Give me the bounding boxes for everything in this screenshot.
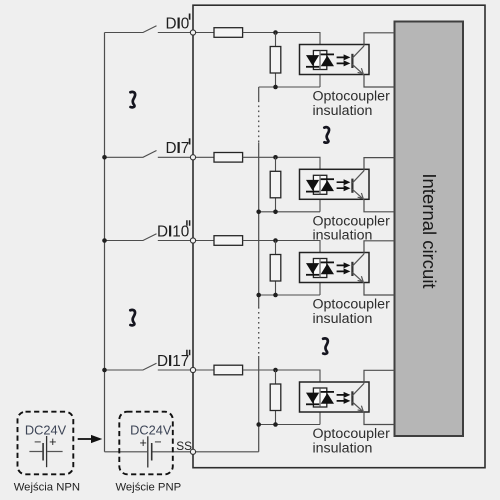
label DI17 (157, 350, 190, 370)
wire terminal DI7 to resistor R2a (193, 156, 214, 158)
node terminal DI0 (190, 30, 195, 35)
battery symbol PNP (147, 436, 149, 467)
label DI7 (165, 138, 189, 157)
wire row 2 return to common bus (259, 194, 320, 212)
battery box DC24V (PNP) (119, 412, 173, 475)
svg-text:DI7: DI7 (165, 140, 189, 157)
junction node row 3 bottom (273, 293, 278, 298)
junction on common bus row 3 (256, 293, 261, 298)
switch S4 (DI17 input) (105, 363, 191, 370)
LED center wire U4 (319, 388, 321, 407)
continuation squiggle right 1 (324, 127, 329, 142)
svg-text:DI17: DI17 (157, 353, 189, 370)
wire emitter Q4 to internal circuit (364, 412, 395, 424)
transistor Q1 (photo) (352, 46, 364, 75)
resistor R3b (shunt) (270, 241, 281, 296)
junction on left bus at DI7 (102, 155, 107, 160)
svg-text:DI0: DI0 (165, 15, 189, 32)
label DI0 (165, 14, 189, 33)
LED package of U2 (313, 175, 326, 194)
continuation squiggle left 2 (130, 310, 135, 325)
wire: optocoupler common bus (solid parts) (258, 87, 260, 452)
label Optocoupler insulation 1 (313, 89, 391, 119)
wire emitter Q2 to internal circuit (364, 200, 395, 212)
svg-text:+: + (140, 436, 147, 450)
switch S3 (DI10 input) (105, 234, 191, 241)
wire terminal DI10 to resistor R3a (193, 240, 214, 242)
node terminal DI10 (190, 238, 195, 243)
battery box DC24V (NPN) (18, 412, 74, 475)
wire collector Q3 to internal circuit (364, 241, 395, 254)
wire: SS line right segment (152, 451, 258, 453)
svg-text:SS: SS (176, 439, 192, 453)
resistor R3a (series) (214, 236, 243, 246)
battery symbol NPN (29, 451, 62, 453)
LED center wire U1 (319, 51, 321, 70)
wire: left common bus (104, 33, 106, 452)
junction on left bus at DI17 (102, 368, 107, 373)
wire terminal DI17 to resistor R4a (193, 369, 214, 371)
svg-text:DC24V: DC24V (25, 423, 67, 438)
wire resistor R2a to optocoupler input (243, 157, 320, 176)
junction on common bus row 2 (256, 210, 261, 215)
continuation squiggle right 2 (323, 338, 328, 353)
op-amp U1 optocoupler box (300, 45, 370, 75)
op-amp U4 optocoupler box (300, 382, 370, 412)
junction node row 2 top (273, 155, 278, 160)
wire emitter Q3 to internal circuit (364, 283, 395, 295)
diode D3a (down) (306, 263, 319, 275)
transistor Q2 (photo) (352, 171, 364, 200)
LED package of U1 (313, 51, 326, 70)
diode D1b (up) (321, 54, 334, 66)
wire collector Q1 to internal circuit (364, 33, 395, 46)
wire: common bus dotted segment 2 (258, 307, 260, 356)
resistor R2a (series) (214, 153, 243, 163)
junction node row 1 bottom (273, 85, 278, 90)
junction node row 4 top (273, 368, 278, 373)
label Optocoupler insulation 2 (313, 213, 391, 243)
junction node row 1 top (273, 30, 278, 35)
op-amp U3 optocoupler box (300, 253, 370, 283)
svg-text:−: − (154, 435, 161, 449)
wire collector Q2 to internal circuit (364, 158, 395, 171)
wire collector Q4 to internal circuit (364, 370, 395, 383)
wire terminal DI0 to resistor R1a (193, 32, 214, 34)
diode D2a (down) (306, 180, 319, 192)
resistor R2b (shunt) (270, 157, 281, 212)
internal circuit block (395, 22, 464, 437)
coupling arrows U3 (337, 262, 351, 274)
node terminal DI7 (190, 155, 195, 160)
wire resistor R4a to optocoupler input (243, 370, 320, 389)
LED center wire U2 (319, 175, 321, 194)
LED package of U3 (313, 259, 326, 278)
label Optocoupler insulation 3 (313, 297, 391, 327)
coupling arrows U2 (337, 179, 351, 191)
wire resistor R3a to optocoupler input (243, 241, 320, 260)
diode D4a (down) (306, 393, 319, 405)
resistor R1a (series) (214, 28, 243, 38)
switch S2 (DI7 input) (105, 151, 191, 158)
junction node row 4 bottom (273, 422, 278, 427)
LED center wire U3 (319, 259, 321, 278)
wire: common bus dotted segment 1 (258, 101, 260, 143)
svg-text:Wejścia NPN: Wejścia NPN (14, 481, 80, 493)
junction node row 2 bottom (273, 210, 278, 215)
arrow NPN to PNP (78, 435, 103, 443)
op-amp U2 optocoupler box (300, 169, 370, 199)
wire emitter Q1 to internal circuit (364, 75, 395, 87)
transistor Q4 (photo) (352, 383, 364, 412)
device outline box (193, 5, 485, 468)
resistor R4a (series) (214, 365, 243, 375)
svg-text:Internal circuit: Internal circuit (419, 173, 440, 288)
wire: SS line left segment (105, 451, 148, 453)
diode D4b (up) (321, 392, 334, 404)
wire resistor R1a to optocoupler input (243, 33, 320, 52)
svg-text:insulation: insulation (313, 103, 373, 119)
svg-text:insulation: insulation (313, 440, 373, 456)
node terminal SS (190, 449, 195, 454)
diode D2b (up) (321, 179, 334, 191)
node terminal DI17 (190, 367, 195, 372)
LED package of U4 (313, 388, 326, 407)
junction on common bus row 4 (256, 422, 261, 427)
transistor Q3 (photo) (352, 254, 364, 283)
svg-text:insulation: insulation (313, 311, 373, 327)
svg-text:DI10: DI10 (157, 223, 189, 240)
continuation squiggle left 1 (130, 92, 135, 107)
svg-text:+: + (49, 435, 56, 449)
wire row 4 return to common bus (259, 407, 320, 425)
wire row 1 return to common bus (259, 70, 320, 88)
wire row 3 return to common bus (259, 278, 320, 296)
svg-text:DC24V: DC24V (130, 423, 172, 438)
diode D3b (up) (321, 262, 334, 274)
coupling arrows U1 (337, 54, 351, 66)
label Optocoupler insulation 4 (313, 426, 391, 456)
svg-text:Wejście PNP: Wejście PNP (115, 481, 181, 493)
switch S1 (DI0 input) (105, 26, 191, 33)
svg-text:−: − (34, 435, 41, 449)
coupling arrows U4 (337, 392, 351, 404)
junction on left bus at DI10 (102, 238, 107, 243)
resistor R4b (shunt) (270, 370, 281, 425)
diode D1a (down) (306, 55, 319, 67)
junction node row 3 top (273, 238, 278, 243)
label DI10 (157, 220, 190, 240)
resistor R1b (shunt) (270, 33, 281, 88)
